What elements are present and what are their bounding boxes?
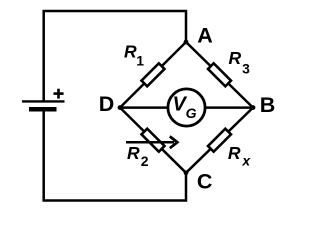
- svg-text:1: 1: [136, 53, 144, 69]
- svg-text:R: R: [228, 143, 241, 163]
- resistor R1 body: [142, 63, 165, 86]
- wire bottom rail from battery branch to node C drop: [44, 108, 186, 201]
- label Rx: [228, 143, 252, 169]
- resistor R2 body (adjustable): [142, 129, 165, 152]
- svg-text:B: B: [260, 93, 276, 117]
- svg-text:A: A: [197, 24, 213, 48]
- svg-text:D: D: [99, 92, 115, 116]
- node B junction dot: [251, 105, 256, 110]
- svg-text:R: R: [124, 42, 137, 62]
- node D junction dot: [118, 105, 123, 110]
- wire bridge arm A to B: [186, 42, 253, 108]
- node A junction dot: [184, 40, 189, 45]
- wire bridge arm D to C: [120, 108, 186, 173]
- wire bridge arm C to B: [186, 108, 253, 173]
- adjustment arrow across R2: [126, 136, 177, 148]
- svg-text:R: R: [229, 48, 242, 68]
- wire top rail from battery branch to node A drop: [44, 11, 186, 102]
- label R1: [124, 42, 144, 69]
- node C junction dot: [184, 170, 189, 175]
- resistor R3 body: [208, 63, 231, 86]
- svg-text:R: R: [127, 143, 140, 163]
- svg-text:3: 3: [242, 61, 250, 77]
- label R2: [127, 143, 149, 169]
- galvanometer VG: [168, 89, 205, 126]
- battery cell with + terminal: [22, 89, 65, 112]
- svg-text:C: C: [197, 170, 213, 194]
- svg-text:2: 2: [141, 153, 149, 169]
- svg-text:G: G: [186, 105, 197, 121]
- svg-text:x: x: [241, 153, 251, 169]
- label R3: [229, 48, 251, 77]
- wire galvanometer branch D to B: [120, 106, 253, 109]
- resistor Rx body: [208, 129, 231, 152]
- wire bridge arm D to A: [120, 42, 186, 108]
